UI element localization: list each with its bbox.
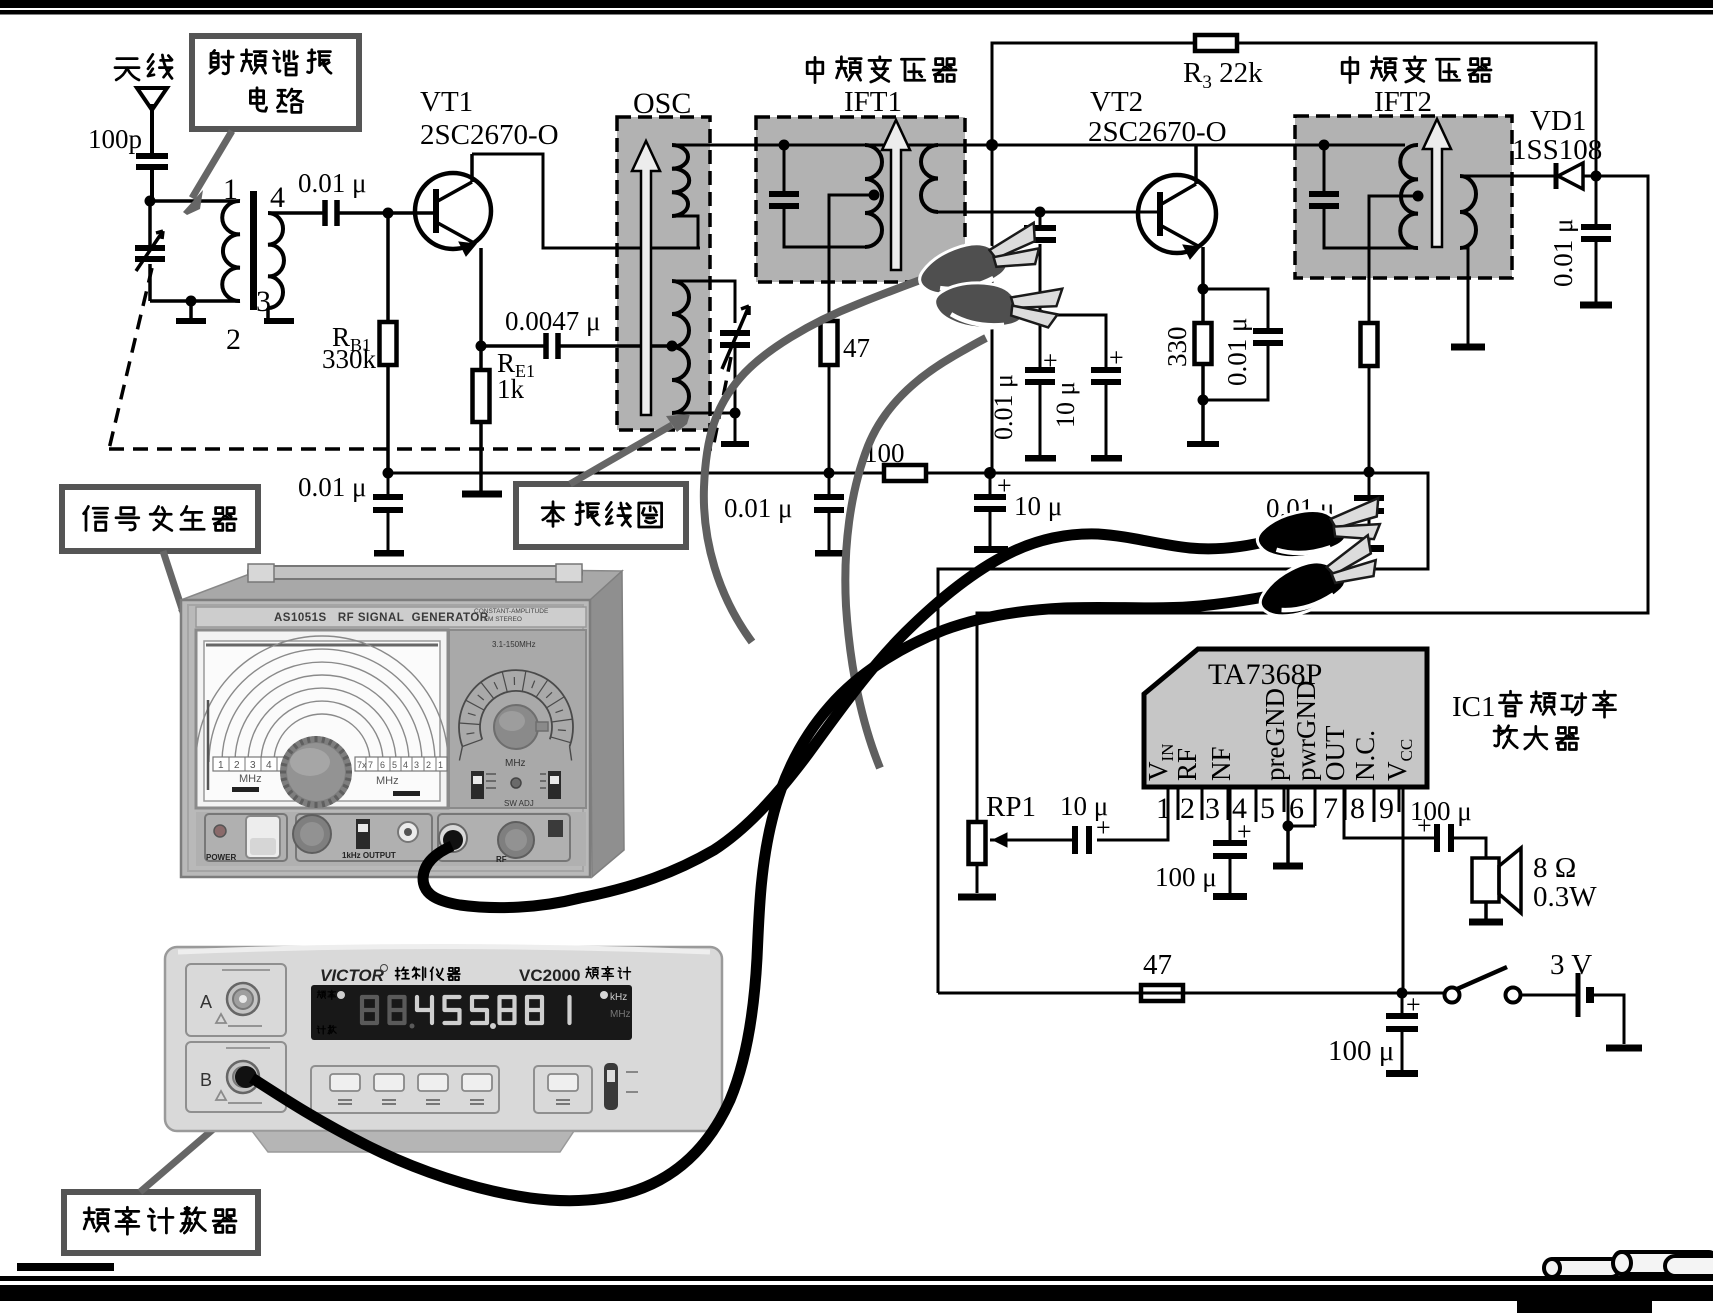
ground VT2 — [1187, 441, 1219, 447]
label box signal generator — [62, 487, 258, 551]
svg-text:1: 1 — [438, 760, 443, 770]
svg-text:10 μ: 10 μ — [1060, 791, 1108, 821]
bottom border bars — [17, 1263, 114, 1271]
alligator clip grey lower — [932, 276, 1062, 337]
grey cable strand 1 — [704, 270, 948, 642]
wire coil bottom — [672, 412, 735, 415]
electrolytic 10u (right of pair) — [1091, 370, 1121, 382]
wire R3 top rail — [992, 43, 1596, 473]
black cable from counter — [252, 588, 1308, 1201]
electrolytic 100u pin3 — [1213, 843, 1247, 856]
transistor VT1 — [415, 154, 491, 256]
node below clip — [1035, 310, 1046, 321]
label antenna zh — [115, 59, 139, 80]
svg-text:1SS108: 1SS108 — [1512, 134, 1602, 166]
svg-text:100 μ: 100 μ — [1328, 1035, 1394, 1067]
svg-text:100p: 100p — [88, 124, 142, 154]
wire bottom power rail — [938, 992, 1443, 995]
capacitor 0.01u VT2 bypass — [1203, 289, 1268, 331]
ground detector cap — [1580, 302, 1612, 309]
svg-text:6: 6 — [1289, 792, 1304, 825]
pin8 wire to 100u out — [1344, 787, 1434, 838]
node RB1 rail — [383, 468, 394, 479]
svg-text:CONSTANT-AMPLITUDE: CONSTANT-AMPLITUDE — [474, 608, 549, 615]
svg-text:2: 2 — [1180, 792, 1195, 825]
pin1 wire to 10u — [1097, 787, 1168, 840]
capacitor 0.01u detector — [1595, 176, 1598, 228]
alligator clip black upper — [1254, 498, 1385, 563]
display digits — [362, 997, 377, 1023]
IFT1 cap — [783, 145, 786, 196]
wire tank top — [150, 199, 238, 203]
OSC block shaded box — [617, 117, 710, 430]
svg-text:0.3W: 0.3W — [1533, 881, 1597, 913]
capacitor 0.01u clip point — [1039, 212, 1042, 230]
svg-text:9: 9 — [1379, 792, 1394, 825]
resistor 330 — [1195, 323, 1212, 364]
svg-text:1: 1 — [218, 760, 224, 771]
ground IFT2 sec — [1451, 344, 1485, 351]
OSC top coil — [672, 145, 689, 216]
transformer T1 core — [250, 191, 257, 310]
svg-text:+: + — [1109, 343, 1124, 372]
Vcc pin wire down — [1402, 787, 1405, 993]
OSC block arrow — [632, 141, 660, 415]
IFT2 secondary coil — [1460, 176, 1476, 248]
potentiometer RP1 — [976, 821, 979, 825]
label box local osc coil — [516, 484, 686, 547]
node 330 bottom — [1198, 395, 1209, 406]
svg-text:100 μ: 100 μ — [1155, 862, 1217, 892]
svg-text:VICTOR: VICTOR — [320, 966, 385, 985]
antenna symbol — [137, 88, 167, 110]
IFT1 secondary coil — [921, 145, 938, 212]
capacitor 0.01u bypass left — [387, 473, 390, 498]
IC U1 TA7368P body — [1144, 649, 1427, 787]
resistor RB1 — [380, 322, 397, 365]
node dot IFT2 cap top — [1319, 140, 1330, 151]
svg-text:7: 7 — [368, 760, 373, 770]
svg-text:1: 1 — [223, 173, 238, 206]
capacitor 0.01u coupling VT1 — [325, 200, 337, 226]
svg-text:RF: RF — [1172, 748, 1202, 781]
node tank bottom ground — [186, 296, 197, 307]
svg-text:7: 7 — [1323, 792, 1338, 825]
plug at generator RF jack — [443, 830, 463, 850]
IC pin divider stubs — [1178, 787, 1399, 826]
ground battery — [1606, 1045, 1642, 1052]
svg-text:+: + — [1406, 990, 1421, 1019]
svg-text:2: 2 — [226, 323, 241, 356]
svg-text:2SC2670-O: 2SC2670-O — [420, 119, 559, 151]
wire audio out right edge — [977, 176, 1648, 821]
svg-text:IFT2: IFT2 — [1374, 86, 1432, 118]
top border bars — [0, 0, 1713, 8]
node dot x992 rail — [986, 139, 998, 151]
black cable from generator — [423, 532, 1298, 908]
svg-text:47: 47 — [1143, 949, 1172, 981]
wire VT1 emitter down — [479, 248, 483, 372]
svg-text:VD1: VD1 — [1530, 105, 1586, 137]
label box frequency counter — [64, 1192, 258, 1253]
ground OSC varcap — [734, 413, 737, 441]
wire to 10u pair — [1022, 315, 1106, 370]
svg-text:2SC2670-O: 2SC2670-O — [1088, 116, 1227, 148]
diode VD1 — [1546, 175, 1648, 178]
svg-text:3: 3 — [414, 760, 419, 770]
switch — [1445, 988, 1460, 1003]
dashed gang lines — [109, 268, 731, 449]
electrolytic 0.01u (left of pair) — [1039, 315, 1042, 371]
capacitor 100p — [136, 156, 168, 167]
IFT2 primary coil — [1400, 145, 1418, 248]
IFT1 block shaded box — [756, 117, 965, 282]
svg-text:47: 47 — [843, 333, 870, 363]
svg-text:OUT: OUT — [1320, 725, 1350, 781]
IFT2 block shaded box — [1295, 116, 1512, 278]
svg-text:NF: NF — [1206, 746, 1236, 781]
alligator clip grey upper — [913, 223, 1047, 304]
wire VT2 collector corner — [1195, 146, 1198, 184]
IFT2 cap — [1323, 145, 1326, 196]
svg-text:RP1: RP1 — [986, 791, 1036, 823]
svg-text:10 μ: 10 μ — [1014, 491, 1062, 521]
svg-text:VT1: VT1 — [420, 86, 473, 118]
svg-text:0.01 μ: 0.01 μ — [724, 493, 792, 523]
wire VT1 collector — [472, 154, 700, 248]
frequency counter instrument — [165, 947, 722, 1153]
svg-text:IC1: IC1 — [1452, 691, 1496, 723]
grey cable strand 2 — [845, 338, 986, 768]
svg-text:MHz: MHz — [239, 773, 262, 785]
svg-text:OSC: OSC — [633, 87, 691, 120]
node tank top — [145, 196, 156, 207]
node 47wire rail — [824, 468, 835, 479]
wire coil top to varcap — [672, 281, 735, 323]
node IFT2 res rail — [1364, 467, 1375, 478]
wire bottom rail — [388, 473, 1428, 993]
variable capacitor tank left — [148, 201, 152, 301]
svg-text:3: 3 — [1205, 792, 1220, 825]
label IFT1 zh — [807, 57, 823, 82]
electrolytic 100u power — [1401, 993, 1404, 1017]
svg-text:pwrGND: pwrGND — [1291, 681, 1321, 782]
node IFT1 tap — [869, 190, 880, 201]
svg-text:3 V: 3 V — [1550, 949, 1592, 981]
svg-text:0.01 μ: 0.01 μ — [1222, 318, 1252, 386]
battery 3V — [1521, 994, 1576, 997]
IFT1 primary coil — [865, 145, 882, 247]
svg-text:MHz: MHz — [505, 758, 526, 769]
svg-text:0.01 μ: 0.01 μ — [1548, 219, 1578, 287]
svg-text:6: 6 — [380, 760, 385, 770]
node VD1 out — [1591, 171, 1602, 182]
wire main horizontal y145 — [672, 144, 1405, 147]
resistor below IFT2 — [1361, 323, 1378, 366]
svg-text:VC2000: VC2000 — [519, 966, 580, 985]
resistor RB1 330k wire — [386, 213, 390, 473]
capacitor 0.0047u — [481, 344, 545, 348]
ground RP1 — [958, 894, 996, 901]
svg-text:4: 4 — [270, 181, 285, 214]
transformer T1 secondary coil — [268, 213, 284, 308]
node IFT2 tap — [1413, 191, 1424, 202]
svg-text:B: B — [200, 1070, 212, 1090]
svg-text:7x: 7x — [357, 760, 367, 770]
resistor 47 bottom — [1141, 985, 1183, 1001]
svg-text:0.01 μ: 0.01 μ — [989, 374, 1018, 440]
svg-text:R3 22k: R3 22k — [1183, 57, 1263, 93]
svg-text:4: 4 — [403, 760, 408, 770]
speaker 8ohm — [1472, 858, 1499, 902]
node varcap bottom — [730, 408, 741, 419]
svg-text:VT2: VT2 — [1090, 86, 1143, 118]
ground tank — [189, 301, 193, 318]
label IFT2 zh — [1342, 57, 1358, 82]
resistor RE1 1k — [473, 370, 490, 422]
arrow to osc coil — [570, 425, 672, 484]
svg-text:5: 5 — [392, 760, 397, 770]
arrow to tank — [192, 131, 232, 198]
svg-text:FM STEREO: FM STEREO — [484, 616, 522, 623]
label box RF resonant circuit — [192, 36, 359, 129]
transformer T1 primary coil — [222, 201, 240, 301]
wire tank bottom — [150, 299, 240, 303]
wire secondary top to cap — [268, 211, 325, 215]
svg-text:8 Ω: 8 Ω — [1533, 852, 1576, 884]
svg-text:1kHz OUTPUT: 1kHz OUTPUT — [342, 851, 396, 860]
electrolytic 10u RP1 — [1075, 826, 1089, 854]
RF signal generator instrument — [181, 564, 624, 877]
svg-text:3.1-150MHz: 3.1-150MHz — [492, 640, 536, 649]
node VT2 base cap junction — [1035, 207, 1046, 218]
svg-text:preGND: preGND — [1260, 688, 1290, 781]
node emitter/0.0047 junction — [476, 341, 487, 352]
svg-text:0.01 μ: 0.01 μ — [298, 168, 366, 198]
svg-text:100 μ: 100 μ — [1410, 796, 1472, 826]
svg-text:SW ADJ: SW ADJ — [504, 799, 534, 808]
svg-text:MHz: MHz — [610, 1009, 631, 1020]
OSC variable capacitor — [720, 333, 750, 345]
svg-text:MHz: MHz — [376, 775, 399, 787]
svg-text:5: 5 — [1260, 792, 1275, 825]
node VT2 emitter — [1198, 284, 1209, 295]
node Vcc junction — [1397, 988, 1408, 999]
svg-text:+: + — [1237, 817, 1252, 846]
svg-text:kHz: kHz — [610, 992, 627, 1003]
electrolytic 10u below rail — [989, 473, 992, 498]
alligator clip black lower — [1251, 535, 1385, 626]
IFT2 tap — [1369, 196, 1418, 472]
OSC local osc coil (bottom) — [672, 281, 689, 413]
node VT1 base junction — [383, 208, 394, 219]
svg-text:AS1051S RF SIGNAL GENERATOR: AS1051S RF SIGNAL GENERATOR — [274, 612, 489, 624]
pin6 ground — [1288, 787, 1315, 826]
node dot IFT1 cap top — [779, 140, 790, 151]
capacitor 0.01u black-clip point — [1368, 472, 1371, 500]
IFT1 tap wire — [829, 195, 874, 473]
svg-text:3: 3 — [250, 760, 256, 771]
svg-text:N.C.: N.C. — [1350, 730, 1380, 781]
arrow to generator — [163, 551, 185, 618]
node x990 rail — [984, 467, 996, 479]
wire VT2 emitter — [1201, 247, 1205, 325]
svg-text:POWER: POWER — [206, 853, 236, 862]
resistor R3 22k — [1195, 35, 1237, 51]
svg-text:0.01 μ: 0.01 μ — [298, 472, 366, 502]
ground RE1 — [462, 491, 502, 498]
svg-text:+: + — [1043, 346, 1058, 375]
arrow to counter — [140, 1101, 246, 1192]
node osc tap — [667, 341, 678, 352]
plug at counter B jack — [235, 1066, 257, 1088]
svg-text:330: 330 — [1162, 327, 1192, 368]
electrolytic 100u output — [1437, 824, 1451, 852]
counter buttons — [311, 1066, 499, 1113]
svg-text:3: 3 — [256, 285, 271, 318]
svg-text:2: 2 — [234, 760, 240, 771]
svg-text:4: 4 — [266, 760, 272, 771]
pin3 wire to 100u — [1229, 787, 1232, 843]
resistor 100 on rail — [884, 465, 926, 481]
capacitor 0.01u bypass mid — [828, 473, 831, 498]
resistor 47 IFT1 — [821, 321, 838, 365]
transistor VT2 — [1138, 146, 1216, 259]
svg-text:A: A — [200, 992, 212, 1012]
decorative cylinders bottom right — [1544, 1252, 1713, 1277]
svg-text:8: 8 — [1350, 792, 1365, 825]
svg-text:1k: 1k — [497, 374, 525, 404]
svg-text:10 μ: 10 μ — [1051, 382, 1080, 428]
ground T1 secondary — [266, 308, 270, 318]
svg-text:+: + — [997, 471, 1012, 500]
svg-text:2: 2 — [426, 760, 431, 770]
svg-text:RF: RF — [496, 855, 507, 864]
svg-text:IFT1: IFT1 — [844, 86, 902, 118]
svg-text:0.0047 μ: 0.0047 μ — [505, 306, 600, 336]
svg-text:330k: 330k — [322, 344, 377, 374]
IFT1 arrow — [882, 120, 910, 270]
IFT2 arrow — [1423, 119, 1451, 247]
